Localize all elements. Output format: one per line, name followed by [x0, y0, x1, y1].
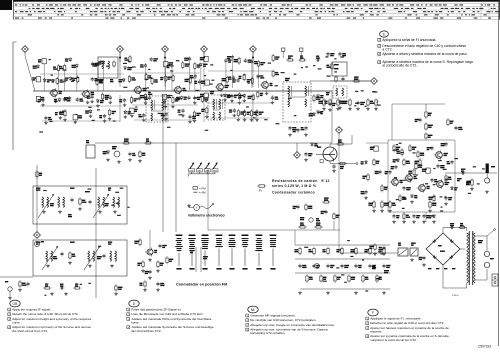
- svg-text:Führe das gewünschte ZF-Signal: Führe das gewünschte ZF-Signal zu.: [131, 308, 182, 312]
- svg-text:Voltímetro electrónico: Voltímetro electrónico: [188, 213, 225, 217]
- svg-text:Appliquer le signal de F.I. né: Appliquer le signal de F.I. nécessaire.: [370, 317, 421, 321]
- svg-text:Afregelen op max. hoogte en sy: Afregelen op max. hoogte en symmetrie va…: [250, 323, 335, 327]
- svg-text:Aplíquese la señal de FI anunc: Aplíquese la señal de FI anunciada.: [382, 38, 436, 42]
- svg-text:series 0,125 W, 1 M Ω %: series 0,125 W, 1 M Ω %: [272, 184, 317, 188]
- svg-text:Justiere auf maximale Höhe und: Justiere auf maximale Höhe und Symmetrie…: [131, 317, 212, 321]
- svg-text:V: V: [196, 206, 198, 210]
- svg-text:Löse die Minusseite von C40 un: Löse die Minusseite von C40 und schließe…: [131, 312, 204, 316]
- svg-text:De minzijde van C40 losnemen.: De minzijde van C40 losnemen. CT2 kortsl…: [250, 318, 316, 322]
- svg-text:Détacher le côté négatif de C4: Détacher le côté négatif de C40 et court…: [370, 321, 444, 325]
- svg-text:Resistencias de carbón E 12: Resistencias de carbón E 12: [272, 179, 330, 183]
- svg-text:a CT2.: a CT2.: [382, 47, 392, 51]
- svg-text:Adjust for maximum height and: Adjust for maximum height and symmetry o…: [12, 317, 91, 321]
- svg-text:Condensador cerámico: Condensador cerámico: [272, 190, 315, 194]
- svg-text:C597193: C597193: [478, 345, 491, 349]
- svg-text:kurve.: kurve.: [131, 321, 140, 325]
- svg-text:den Kurzschluss CT2.: den Kurzschluss CT2.: [131, 329, 161, 333]
- svg-text:Detach the minus side of C40.: Detach the minus side of C40. Short-circ…: [12, 312, 79, 316]
- svg-text:réponse.: réponse.: [370, 330, 382, 334]
- svg-text:GB: GB: [13, 302, 19, 306]
- svg-text:Gewenste MF-signaal toevoeren.: Gewenste MF-signaal toevoeren.: [250, 314, 296, 318]
- svg-text:NL: NL: [251, 308, 255, 312]
- svg-text:S 85-8: S 85-8: [452, 295, 459, 297]
- svg-text:= AM: = AM: [199, 190, 206, 194]
- svg-text:supprimer le court-circuit sur: supprimer le court-circuit sur CT2.: [370, 338, 417, 342]
- svg-text:Conmutador en posición FM: Conmutador en posición FM: [176, 283, 227, 287]
- svg-text:Desconéctese el lado negativo: Desconéctese el lado negativo de C40 y c…: [382, 44, 466, 48]
- svg-text:el cortocircuito de CT2.: el cortocircuito de CT2.: [382, 64, 417, 68]
- svg-text:the short-circuit from CT2.: the short-circuit from CT2.: [12, 329, 48, 333]
- svg-text:Apply the required IF signal.: Apply the required IF signal.: [12, 308, 51, 312]
- svg-text:F: F: [372, 311, 374, 315]
- svg-text:Ajústese a altura y simetría m: Ajústese a altura y simetría máxima de l…: [382, 52, 467, 56]
- svg-text:curve.: curve.: [12, 321, 21, 325]
- svg-text:kortsluiting CT2 opheffen.: kortsluiting CT2 opheffen.: [250, 331, 285, 335]
